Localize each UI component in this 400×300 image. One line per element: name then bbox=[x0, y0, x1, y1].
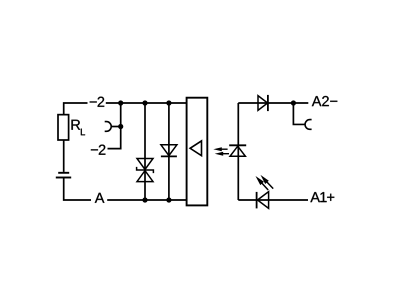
wire: top-left stub from left branch to terminal -2, plus drop to resistor bbox=[64, 103, 88, 115]
wire: branch 3 vertical (diode) bbox=[168, 103, 170, 200]
light arrow 1 into optocoupler bbox=[213, 147, 227, 151]
wire: top rail from -2 label to optocoupler box bbox=[106, 102, 187, 104]
wire: A2 junction down to clamp bbox=[293, 103, 305, 124]
wire: right input vertical A2 to A1 bbox=[237, 103, 239, 200]
wire: clamp to branch 1 bbox=[111, 126, 120, 128]
terminal label -2 (middle left) bbox=[91, 145, 105, 155]
terminal label A1+ bbox=[310, 192, 334, 202]
status LED cathode bar bbox=[256, 192, 258, 209]
diode V2 triangle (pointing right) bbox=[258, 96, 268, 111]
terminal label -2 (top left) bbox=[90, 97, 104, 107]
node: junction dot bottom rail / branch 3 bbox=[166, 197, 171, 202]
node: junction dot top rail / branch 3 bbox=[166, 100, 171, 105]
optocoupler U1 output triangle bbox=[190, 141, 201, 156]
status LED emission arrow 2 bbox=[261, 175, 274, 189]
node: junction dot top rail / branch 1 bbox=[118, 100, 123, 105]
status LED triangle (pointing left) bbox=[258, 192, 269, 209]
wire: branch 2 vertical (TVS suppressor) bbox=[144, 103, 146, 200]
clamp connection point (left) bbox=[105, 122, 112, 132]
light arrow 2 into optocoupler bbox=[215, 152, 229, 156]
node: junction dot A2 / clamp branch bbox=[291, 100, 296, 105]
status LED emission arrow 1 bbox=[256, 176, 269, 190]
suppressor diode TVS top triangle bbox=[137, 159, 153, 170]
wire: resistor RL to capacitor bbox=[63, 140, 65, 172]
wire: bottom right rail through status LED to A1+ bbox=[238, 199, 308, 201]
wire: branch 1 vertical from top rail to -2 stub bbox=[108, 103, 121, 149]
diode V1 triangle (cathode down) bbox=[161, 145, 177, 156]
resistor RL bbox=[58, 115, 69, 140]
terminal label A2- bbox=[312, 96, 337, 106]
label RL subscript bbox=[81, 129, 85, 136]
terminal label A bbox=[95, 193, 105, 203]
capacitor C1 bbox=[56, 173, 71, 178]
wire: top right rail through diode to A2- bbox=[238, 102, 308, 104]
optocoupler U1 box bbox=[187, 98, 208, 206]
wire: bottom rail from A label to optocoupler box bbox=[107, 199, 187, 201]
diode V2 cathode bar bbox=[267, 95, 269, 111]
suppressor diode TVS zener bar bbox=[137, 167, 154, 173]
diode V1 cathode bar bbox=[161, 155, 177, 157]
node: junction dot clamp/branch1 bbox=[118, 124, 123, 129]
optocoupler input LED bar (cathode up) bbox=[229, 144, 246, 146]
optocoupler input LED triangle (pointing up) bbox=[230, 146, 245, 156]
clamp connection point (right) bbox=[305, 120, 312, 130]
node: junction dot top rail / branch 2 bbox=[142, 100, 147, 105]
suppressor diode TVS bottom triangle bbox=[137, 171, 153, 182]
node: junction dot bottom rail / branch 2 bbox=[142, 197, 147, 202]
label RL bbox=[71, 120, 80, 130]
wire: capacitor to bottom rail and terminal A bbox=[64, 178, 91, 201]
